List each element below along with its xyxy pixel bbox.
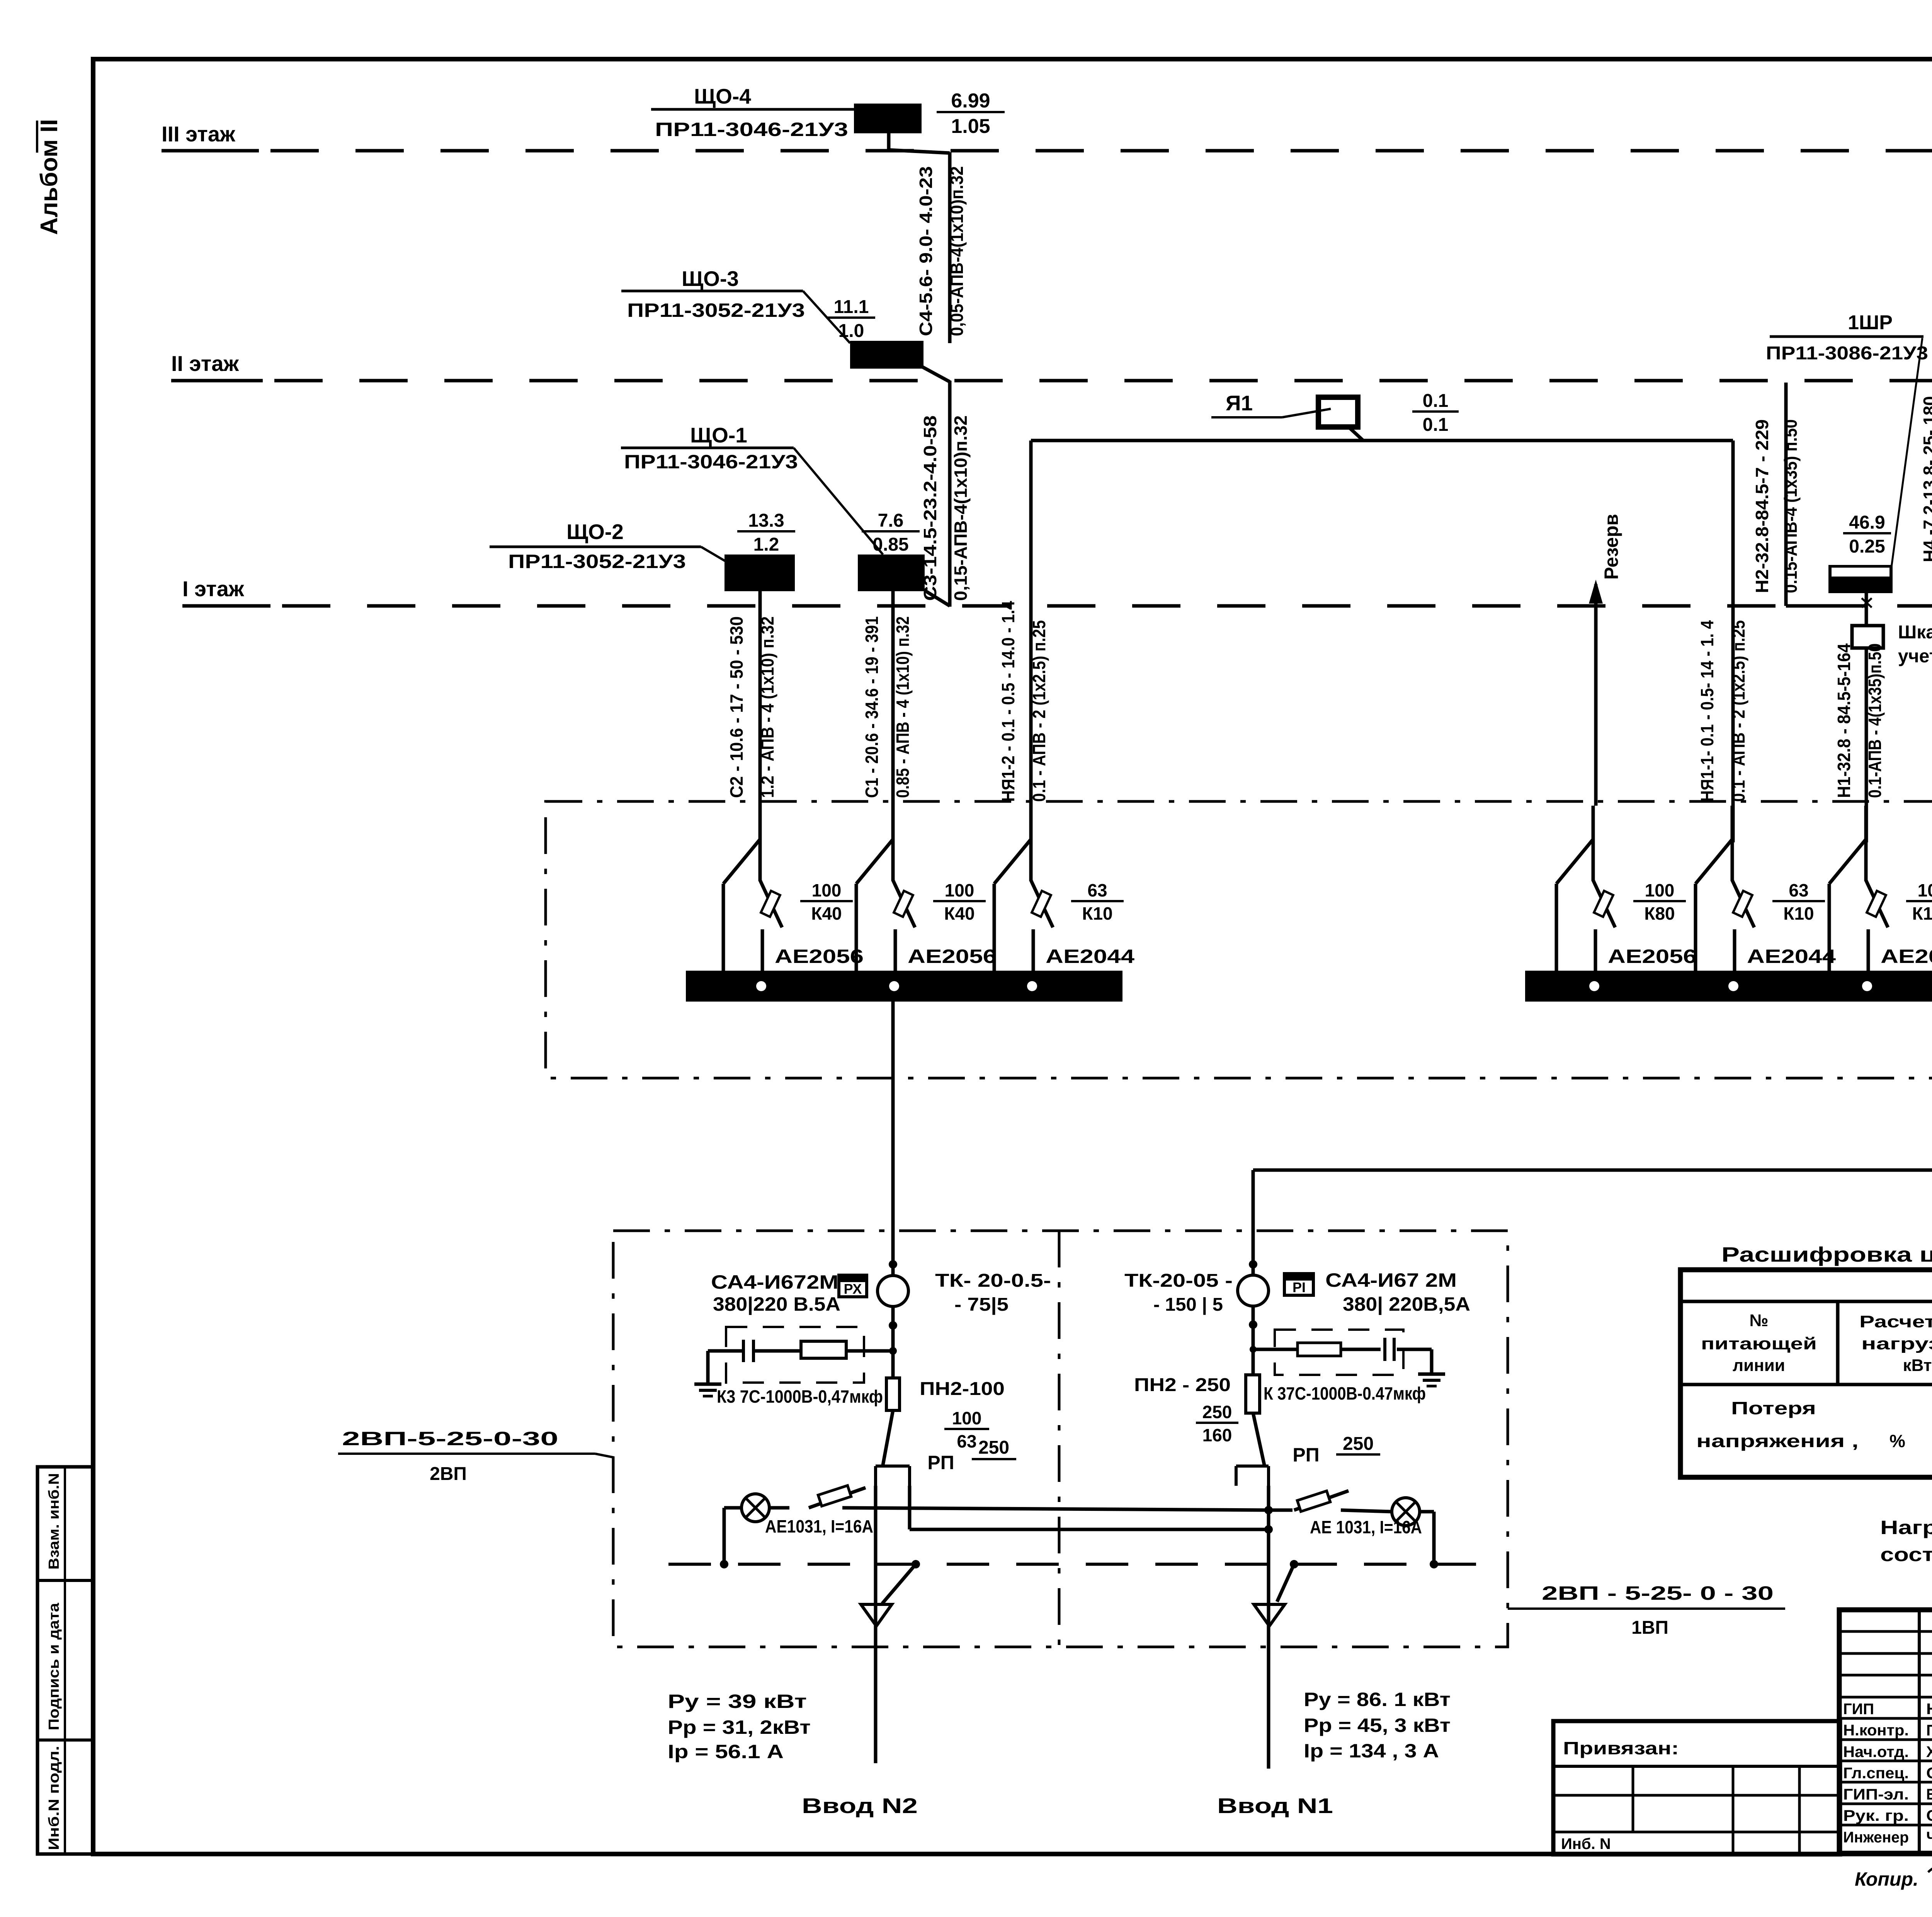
- svg-text:Инб. N: Инб. N: [1561, 1835, 1611, 1852]
- svg-text:100: 100: [1645, 880, 1675, 900]
- wire Н2 feeder to 1ШР: [1752, 383, 1872, 607]
- text Копир: [1855, 1867, 1932, 1890]
- svg-text:13.3: 13.3: [748, 510, 784, 531]
- wire Я1 horizontal feeder: [1031, 427, 1733, 441]
- svg-text:250: 250: [1343, 1434, 1374, 1454]
- svg-text:Шкаф: Шкаф: [1898, 622, 1932, 643]
- wire from left bus down to Ввод N2 unit: [891, 1002, 895, 1231]
- svg-text:АЕ2056: АЕ2056: [1608, 946, 1697, 967]
- node floor line III: [162, 122, 1932, 151]
- svg-text:2ВП - 5-25- 0 - 30: 2ВП - 5-25- 0 - 30: [1542, 1582, 1774, 1604]
- svg-text:Инженер: Инженер: [1843, 1829, 1909, 1846]
- node Резерв spare feeder: [1589, 514, 1622, 806]
- svg-text:Подпись и дата: Подпись и дата: [46, 1602, 62, 1730]
- switch АЕ1031 circuit 1: [765, 1485, 873, 1536]
- svg-text:Инб.N подл.: Инб.N подл.: [46, 1746, 62, 1850]
- svg-text:Блубштейн: Блубштейн: [1926, 1786, 1932, 1803]
- svg-text:ПР11-3052-21У3: ПР11-3052-21У3: [508, 551, 686, 572]
- svg-text:1ШР: 1ШР: [1848, 311, 1893, 334]
- svg-text:ПР11-3086-21У3: ПР11-3086-21У3: [1766, 343, 1928, 364]
- wire C1 from ЩО-1 to РП: [862, 591, 913, 842]
- svg-text:ПР11-3052-21У3: ПР11-3052-21У3: [627, 299, 805, 321]
- svg-text:АЕ2044: АЕ2044: [1046, 946, 1134, 967]
- svg-text:Iр = 56.1 А: Iр = 56.1 А: [668, 1741, 784, 1762]
- svg-text:АЕ2056: АЕ2056: [775, 946, 864, 967]
- breaker QF5 АЕ2044 63/К10: [1696, 806, 1836, 991]
- wire C2 from ЩО-2 to РП: [726, 591, 777, 842]
- panel ЩО-2: [490, 520, 795, 591]
- value 46.9/0.25: [1843, 512, 1891, 557]
- svg-text:I этаж: I этаж: [182, 577, 245, 601]
- svg-text:РХ: РХ: [844, 1281, 862, 1297]
- svg-text:Н4 -7.2-13.8- 25- 180: Н4 -7.2-13.8- 25- 180: [1920, 396, 1932, 562]
- svg-text:0.85: 0.85: [872, 534, 908, 555]
- table Привязан: [1553, 1721, 1840, 1854]
- contactor РП circuit 1: [876, 1410, 910, 1486]
- text load circuit 2: [1304, 1689, 1451, 1762]
- svg-text:составляет 170 А.: составляет 170 А.: [1880, 1544, 1932, 1565]
- wire C3 from ЩО-3 down to ЩО-1: [920, 367, 971, 607]
- svg-text:0.15-АПВ-4 (1х35) п.50: 0.15-АПВ-4 (1х35) п.50: [1781, 419, 1801, 593]
- svg-text:ЩО-2: ЩО-2: [566, 520, 624, 544]
- svg-text:Резерв: Резерв: [1600, 514, 1622, 580]
- svg-text:К80: К80: [1644, 903, 1675, 924]
- wire НЯ1-1 from Я1 line to РП: [1697, 441, 1748, 842]
- svg-text:Н1-32.8 - 84.5-5-164: Н1-32.8 - 84.5-5-164: [1834, 643, 1854, 798]
- svg-text:Ввод N1: Ввод N1: [1217, 1794, 1333, 1818]
- label 2ВП-5-25-0-30 1ВП: [1508, 1582, 1785, 1638]
- wire Н4 feeder to 2ШР: [1920, 354, 1932, 580]
- svg-text:НЯ1-1- 0.1 - 0.5- 14 - 1. 4: НЯ1-1- 0.1 - 0.5- 14 - 1. 4: [1697, 620, 1717, 802]
- svg-text:ТК-20-05 -: ТК-20-05 -: [1124, 1271, 1233, 1291]
- svg-text:ПН2-100: ПН2-100: [920, 1379, 1005, 1399]
- svg-text:0.85 - АПВ - 4 (1х10) п.32: 0.85 - АПВ - 4 (1х10) п.32: [893, 616, 913, 798]
- svg-text:380| 220В,5А: 380| 220В,5А: [1343, 1293, 1470, 1315]
- svg-text:0,05-АПВ-4(1х10)п.32: 0,05-АПВ-4(1х10)п.32: [947, 166, 967, 336]
- transformer ТК-20-0.5 circuit 1: [878, 1271, 1051, 1315]
- svg-text:Нагрузка на ввод в аварийном р: Нагрузка на ввод в аварийном режиме: [1880, 1517, 1932, 1538]
- svg-text:АЕ 1031, I=16А: АЕ 1031, I=16А: [1310, 1517, 1422, 1537]
- svg-text:К40: К40: [944, 903, 975, 924]
- svg-text:С1 - 20.6 - 34.6 - 19 - 391: С1 - 20.6 - 34.6 - 19 - 391: [862, 616, 882, 798]
- fuse ПН2-250: [1134, 1375, 1260, 1445]
- svg-text:100: 100: [952, 1408, 982, 1428]
- svg-text:63: 63: [1789, 880, 1808, 900]
- text load circuit 1: [668, 1691, 811, 1762]
- value 0.1/0.1: [1412, 391, 1459, 435]
- capacitor К3 branch circuit 1: [708, 1327, 893, 1384]
- svg-text:ТК- 20-0.5-: ТК- 20-0.5-: [935, 1271, 1051, 1291]
- svg-text:К100: К100: [1912, 903, 1932, 924]
- svg-text:ГИП-эл.: ГИП-эл.: [1843, 1786, 1909, 1803]
- title block row labels: [1843, 1701, 1932, 1846]
- svg-text:Сорокина: Сорокина: [1926, 1807, 1932, 1824]
- svg-text:ГИП: ГИП: [1843, 1701, 1874, 1718]
- svg-text:Ру = 86. 1 кВт: Ру = 86. 1 кВт: [1304, 1689, 1451, 1710]
- svg-text:АЕ2044: АЕ2044: [1747, 946, 1836, 967]
- wire НЯ1-2 from Я1 line to РП: [998, 441, 1049, 842]
- svg-text:Рр = 45, 3 кВт: Рр = 45, 3 кВт: [1304, 1715, 1451, 1736]
- box Я1: [1211, 391, 1358, 427]
- svg-text:1ВП: 1ВП: [1631, 1618, 1668, 1638]
- svg-text:ПР11-3046-21У3: ПР11-3046-21У3: [624, 451, 798, 473]
- fuse ПН2-100: [886, 1378, 1005, 1451]
- svg-text:Расчетная: Расчетная: [1859, 1312, 1932, 1331]
- svg-text:%: %: [1889, 1431, 1905, 1451]
- svg-text:III этаж: III этаж: [162, 122, 236, 146]
- wire РП tail line to circuit 2: [910, 1528, 1269, 1531]
- panel ЩО-3: [621, 267, 923, 369]
- breaker QF3 АЕ2044 63/К10: [994, 806, 1134, 991]
- svg-text:100: 100: [945, 880, 975, 900]
- svg-text:ЩО-4: ЩО-4: [694, 84, 751, 108]
- wire Н1 from 1ШР to РП: [1834, 593, 1885, 842]
- svg-text:100: 100: [812, 880, 842, 900]
- svg-text:К10: К10: [1082, 903, 1112, 924]
- bus bar left: [686, 971, 1122, 1002]
- svg-text:2ВП: 2ВП: [430, 1464, 467, 1484]
- panel 1ШР: [1766, 311, 1928, 593]
- note аварийный режим: [1880, 1517, 1932, 1565]
- breaker QF6 АЕ2056 100/К100: [1829, 806, 1932, 991]
- svg-text:Расшифровка цифровых и букв: Расшифровка цифровых и буквенных обознач…: [1721, 1243, 1932, 1266]
- album label: [36, 119, 63, 235]
- svg-text:Нач.отд.: Нач.отд.: [1843, 1744, 1909, 1761]
- svg-text:АЕ2056: АЕ2056: [1881, 946, 1932, 967]
- svg-text:СА4-И672М: СА4-И672М: [711, 1271, 838, 1293]
- svg-text:1.2: 1.2: [753, 534, 779, 555]
- node floor line II: [171, 351, 1932, 381]
- input arrow Ввод N1: [1254, 1564, 1294, 1769]
- svg-text:63: 63: [1087, 880, 1107, 900]
- svg-text:250: 250: [1202, 1402, 1232, 1422]
- svg-text:1.05: 1.05: [951, 115, 990, 138]
- svg-text:11.1: 11.1: [834, 297, 869, 317]
- breaker QF4 АЕ2056 100/К80: [1556, 806, 1697, 991]
- svg-text:46.9: 46.9: [1849, 512, 1885, 533]
- meter СА4-И672М label and РХ icon: [711, 1271, 867, 1315]
- svg-text:ЩО-3: ЩО-3: [682, 267, 739, 291]
- svg-text:380|220 В.5А: 380|220 В.5А: [713, 1293, 840, 1315]
- svg-text:Потеря: Потеря: [1731, 1398, 1816, 1418]
- svg-text:учета: учета: [1898, 646, 1932, 667]
- breaker QF2 АЕ2056 100/К40: [856, 806, 997, 991]
- svg-text:0.1: 0.1: [1423, 415, 1449, 435]
- svg-text:линии: линии: [1733, 1356, 1785, 1375]
- svg-text:0,15-АПВ-4(1х10)п.32: 0,15-АПВ-4(1х10)п.32: [951, 415, 971, 601]
- wire internal dashed bottom: [668, 1560, 1492, 1568]
- svg-text:ПР11-3046-21У3: ПР11-3046-21У3: [655, 119, 848, 140]
- svg-text:РП: РП: [1293, 1444, 1319, 1466]
- svg-text:РП: РП: [927, 1452, 954, 1473]
- svg-text:нагрузка,: нагрузка,: [1861, 1334, 1932, 1353]
- svg-text:Iр = 134 , 3 А: Iр = 134 , 3 А: [1304, 1740, 1439, 1762]
- svg-text:1.2 - АПВ - 4 (1х10) п.32: 1.2 - АПВ - 4 (1х10) п.32: [757, 616, 777, 798]
- switch АЕ1031 circuit 2: [1269, 1491, 1422, 1537]
- svg-text:Копир.: Копир.: [1855, 1868, 1918, 1890]
- label РП 250 circuit 2: [1293, 1434, 1380, 1466]
- svg-text:0.25: 0.25: [1849, 536, 1885, 557]
- svg-text:II этаж: II этаж: [171, 351, 239, 376]
- svg-text:Рук. гр.: Рук. гр.: [1843, 1807, 1909, 1824]
- svg-text:1.0: 1.0: [838, 321, 864, 341]
- title block stamp: [1839, 1610, 1932, 1853]
- value 6.99/1.05: [937, 90, 1005, 138]
- input arrow Ввод N2: [861, 1564, 916, 1763]
- svg-text:С2 - 10.6 - 17 - 50 - 530: С2 - 10.6 - 17 - 50 - 530: [726, 616, 747, 798]
- svg-text:63: 63: [957, 1431, 976, 1451]
- wire C4 from ЩО-4 down to ЩО-3: [889, 133, 967, 343]
- svg-text:К10: К10: [1783, 903, 1814, 924]
- svg-text:К40: К40: [811, 903, 842, 924]
- meter СА4-И67 2М label and РI icon: [1284, 1269, 1470, 1315]
- label РП 250 circuit 1: [927, 1437, 1016, 1473]
- table Питающие линии: [1680, 1270, 1932, 1477]
- svg-text:С4-5.6- 9.0- 4.0-23: С4-5.6- 9.0- 4.0-23: [916, 166, 936, 336]
- svg-text:напряжения ,: напряжения ,: [1696, 1431, 1859, 1451]
- svg-text:Гл.спец.: Гл.спец.: [1843, 1765, 1909, 1782]
- svg-text:Попова: Попова: [1926, 1722, 1932, 1739]
- lamp HL circuit 2: [1392, 1498, 1434, 1564]
- capacitor К37С branch circuit 2: [1253, 1330, 1432, 1375]
- svg-text:СА4-И67 2М: СА4-И67 2М: [1325, 1269, 1457, 1291]
- svg-text:АЕ2056: АЕ2056: [908, 946, 997, 967]
- enclosure 2ВП/1ВП dash-dot boxes: [613, 1231, 1508, 1647]
- svg-text:Ввод N2: Ввод N2: [802, 1794, 918, 1818]
- component Шкаф учета: [1852, 622, 1932, 667]
- wire circuit 1 after РП: [876, 1486, 910, 1604]
- svg-text:Хомяк: Хомяк: [1926, 1744, 1932, 1761]
- value 7.6/0.85: [862, 510, 920, 555]
- transformer ТК-20-05 circuit 2: [1124, 1231, 1269, 1375]
- svg-text:НЯ1-2 - 0.1 - 0.5 - 14.0 - 1.4: НЯ1-2 - 0.1 - 0.5 - 14.0 - 1.4: [998, 601, 1018, 802]
- svg-text:К 37С-1000В-0.47мкф: К 37С-1000В-0.47мкф: [1264, 1383, 1426, 1403]
- svg-text:- 150 | 5: - 150 | 5: [1153, 1294, 1223, 1315]
- svg-text:ЩО-1: ЩО-1: [690, 423, 747, 447]
- svg-text:0.1 - АПВ - 2 (1х2.5) п.25: 0.1 - АПВ - 2 (1х2.5) п.25: [1728, 620, 1748, 802]
- svg-text:250: 250: [978, 1437, 1009, 1458]
- svg-text:0.1: 0.1: [1423, 391, 1449, 411]
- lamp HL circuit 1: [724, 1494, 769, 1564]
- contactor РП circuit 2: [1236, 1413, 1269, 1486]
- svg-text:Н2-32.8-84.5-7 - 229: Н2-32.8-84.5-7 - 229: [1752, 419, 1772, 593]
- svg-text:0.1 - АПВ - 2 (1х2.5) п.25: 0.1 - АПВ - 2 (1х2.5) п.25: [1029, 620, 1049, 802]
- svg-text:РI: РI: [1293, 1279, 1306, 1295]
- svg-text:7.6: 7.6: [878, 510, 904, 531]
- svg-text:100: 100: [1918, 880, 1932, 900]
- panel ЩО-4: [651, 84, 922, 140]
- panel ЩО-1: [621, 423, 925, 591]
- label 2ВП-5-25-0-30 2ВП: [338, 1428, 614, 1484]
- svg-text:Н.контр.: Н.контр.: [1843, 1722, 1909, 1739]
- ground symbol circuit 2: [1418, 1374, 1445, 1386]
- svg-text:0.1-АПВ - 4(1х35)п.50: 0.1-АПВ - 4(1х35)п.50: [1865, 643, 1885, 798]
- left stamp strip table: [37, 1467, 93, 1854]
- svg-text:Взам. инб.N: Взам. инб.N: [46, 1473, 62, 1570]
- svg-text:АЕ1031, I=16А: АЕ1031, I=16А: [765, 1516, 873, 1536]
- svg-text:Привязан:: Привязан:: [1563, 1738, 1679, 1758]
- breaker QF1 АЕ2056 100/К40: [723, 806, 864, 991]
- svg-text:Сизанцев: Сизанцев: [1926, 1765, 1932, 1782]
- svg-text:- 75|5: - 75|5: [954, 1294, 1009, 1315]
- value 11.1/1.0: [827, 297, 875, 341]
- svg-text:Альбом II: Альбом II: [36, 119, 63, 235]
- svg-text:К3 7С-1000В-0,47мкф: К3 7С-1000В-0,47мкф: [717, 1386, 883, 1407]
- node floor line I: [182, 577, 1932, 606]
- svg-text:Я1: Я1: [1226, 391, 1253, 415]
- svg-text:ПН2 - 250: ПН2 - 250: [1134, 1375, 1231, 1395]
- svg-text:Рр = 31, 2кВт: Рр = 31, 2кВт: [668, 1716, 811, 1738]
- svg-text:Черкасова: Черкасова: [1926, 1829, 1932, 1846]
- svg-text:Ру = 39 кВт: Ру = 39 кВт: [668, 1691, 807, 1712]
- svg-text:питающей: питающей: [1701, 1334, 1817, 1353]
- ground symbol circuit 1: [694, 1384, 721, 1396]
- wire lamp line to circuit 2: [842, 1508, 1269, 1510]
- bus bar right: [1525, 971, 1932, 1002]
- wire main of circuit 1 with junctions: [889, 1231, 897, 1276]
- svg-text:6.99: 6.99: [951, 90, 990, 112]
- enclosure РП dash-dot box: [546, 801, 1932, 1078]
- svg-text:Назарова: Назарова: [1926, 1701, 1932, 1718]
- wire circuit 2 after РП: [1264, 1486, 1273, 1604]
- svg-text:№: №: [1749, 1311, 1768, 1330]
- svg-text:2ВП-5-25-0-30: 2ВП-5-25-0-30: [342, 1428, 558, 1449]
- svg-text:160: 160: [1202, 1425, 1232, 1445]
- value 13.3/1.2: [737, 510, 795, 555]
- svg-text:кВт: кВт: [1903, 1356, 1932, 1375]
- wire from right bus down and across to Ввод N1 unit: [1253, 1002, 1932, 1231]
